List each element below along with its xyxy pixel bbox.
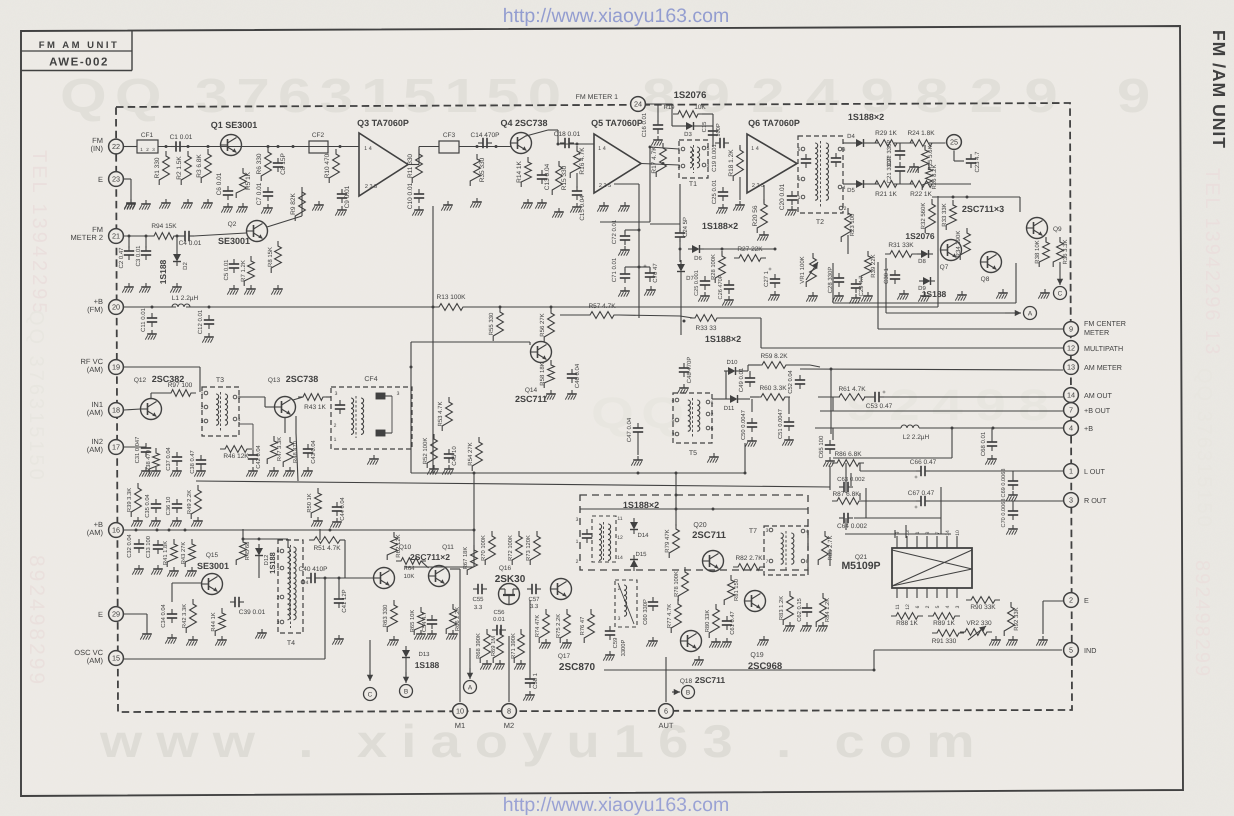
svg-text:Q2: Q2 — [228, 221, 237, 228]
transistor Q18 — [681, 631, 704, 666]
svg-text:1S188×2: 1S188×2 — [702, 221, 738, 231]
transformer T6 coils — [576, 516, 623, 565]
svg-text:1 4: 1 4 — [751, 146, 759, 152]
svg-text:(FM): (FM) — [87, 305, 103, 314]
resistor R90 — [966, 597, 1000, 611]
svg-text:+: + — [882, 390, 886, 396]
capacitor C66 — [910, 459, 937, 481]
svg-text:7: 7 — [1069, 406, 1073, 415]
svg-text:C44 0.04: C44 0.04 — [339, 496, 346, 520]
resistor R43 — [293, 394, 331, 481]
svg-text:C43 0.04: C43 0.04 — [310, 439, 317, 463]
svg-text:6: 6 — [664, 707, 668, 716]
svg-text:21: 21 — [112, 232, 120, 241]
capacitor C18 — [554, 131, 581, 148]
resistor R72 — [507, 531, 522, 565]
resistor R92 — [1004, 602, 1020, 636]
svg-text:C5 0.01: C5 0.01 — [223, 259, 230, 281]
svg-text:4: 4 — [306, 580, 309, 586]
resistor R35 — [470, 154, 486, 208]
svg-text:(AM): (AM) — [87, 445, 104, 454]
diode D4 — [847, 133, 868, 147]
svg-text:R5 1K: R5 1K — [245, 171, 252, 190]
svg-text:1: 1 — [798, 195, 801, 201]
svg-text:C65 100: C65 100 — [818, 435, 825, 458]
svg-text:10: 10 — [955, 530, 961, 536]
resistor R45 — [236, 529, 288, 565]
label 1S188x2 top — [702, 221, 738, 231]
resistor R63 — [382, 600, 399, 646]
svg-text:VR2 330: VR2 330 — [966, 620, 992, 627]
inductor L1 — [172, 295, 199, 307]
svg-text:C66 0.47: C66 0.47 — [910, 459, 937, 466]
diode D6 — [688, 245, 777, 262]
resistor R68 — [475, 629, 492, 670]
capacitor C43 — [303, 439, 317, 463]
wire conn5 IND — [874, 649, 1062, 651]
svg-text:C64 0.002: C64 0.002 — [837, 523, 867, 530]
resistor R18 — [728, 145, 745, 211]
svg-text:QQ 376315150: QQ 376315150 — [25, 310, 47, 483]
op-amp Q3 TA7060P — [357, 118, 409, 196]
connector 19 — [81, 357, 124, 374]
watermark mid digits b — [846, 381, 1061, 430]
svg-text:D3: D3 — [684, 131, 692, 138]
wire out links — [830, 463, 860, 530]
svg-text:C23 4.7: C23 4.7 — [974, 151, 981, 173]
resistor R17 — [600, 143, 666, 222]
svg-text:T2: T2 — [816, 219, 824, 226]
watermark right vertical pink2 — [1191, 560, 1213, 678]
IC M5109P — [841, 534, 972, 588]
svg-text:R44 1K: R44 1K — [211, 612, 217, 631]
resistor R49 — [186, 485, 203, 527]
svg-text:MULTIPATH: MULTIPATH — [1084, 344, 1123, 353]
svg-text:3: 3 — [955, 605, 961, 608]
svg-text:C69 0.0068: C69 0.0068 — [1001, 469, 1007, 498]
svg-text:http://www.xiaoyu163.com: http://www.xiaoyu163.com — [503, 794, 730, 816]
wire det vert — [675, 473, 852, 526]
svg-text:1 4: 1 4 — [364, 146, 372, 152]
resistor R65 — [409, 607, 426, 640]
svg-text:1: 1 — [915, 531, 921, 534]
capacitor C4 — [179, 231, 202, 247]
resistor R26 — [922, 164, 938, 190]
connector 2 — [1064, 593, 1089, 608]
svg-text:R49 2.2K: R49 2.2K — [186, 490, 193, 514]
svg-text:5: 5 — [707, 146, 710, 152]
svg-text:C: C — [368, 691, 373, 698]
capacitor C13 — [535, 163, 551, 208]
capacitor C1 — [170, 134, 193, 152]
svg-text:E: E — [98, 175, 103, 184]
resistor R66 — [446, 604, 461, 640]
capacitor C27 — [763, 267, 780, 301]
svg-text:1S188×2: 1S188×2 — [848, 112, 884, 122]
resistor R31 — [885, 242, 917, 257]
svg-text:4: 4 — [238, 417, 241, 423]
svg-text:R43 1K: R43 1K — [304, 404, 326, 411]
svg-text:Q14: Q14 — [525, 387, 538, 394]
svg-text:R69 1M: R69 1M — [490, 636, 497, 656]
svg-text:R27 22K: R27 22K — [737, 246, 763, 253]
svg-text:Q20: Q20 — [693, 522, 706, 529]
svg-text:+B OUT: +B OUT — [1084, 406, 1111, 415]
svg-text:R35 330: R35 330 — [479, 157, 486, 182]
wire conn29 — [124, 614, 152, 640]
svg-text:6: 6 — [798, 147, 801, 153]
svg-text:CF2: CF2 — [312, 132, 325, 139]
transistor Q8 — [981, 252, 1002, 284]
svg-text:FM CENTER: FM CENTER — [1084, 319, 1126, 328]
transistor Q4 — [500, 118, 547, 154]
svg-text:R52 100K: R52 100K — [422, 438, 429, 465]
svg-text:3: 3 — [397, 391, 400, 397]
wire M2 up — [508, 636, 510, 702]
connector 29 — [98, 607, 123, 622]
svg-text:R38 10K: R38 10K — [1034, 240, 1041, 263]
svg-text:C7 0.01: C7 0.01 — [256, 182, 263, 205]
svg-text:TEL 13942296 13: TEL 13942296 13 — [1201, 168, 1223, 356]
svg-text:R73 120K: R73 120K — [525, 535, 532, 561]
resistor R47 — [267, 436, 283, 464]
capacitor C49 — [738, 367, 755, 392]
svg-text:Q8: Q8 — [981, 276, 990, 283]
diode D13 — [402, 646, 440, 670]
svg-text:C39 0.01: C39 0.01 — [239, 609, 266, 616]
grounds top row — [124, 200, 151, 210]
diode D8 — [917, 250, 933, 265]
connector 18 — [87, 400, 124, 417]
svg-text:C3 0.01: C3 0.01 — [135, 245, 142, 267]
svg-text:18: 18 — [112, 406, 120, 415]
svg-text:2: 2 — [711, 412, 714, 418]
svg-text:TEL 13942295: TEL 13942295 — [28, 150, 50, 316]
connector 10 M1 — [453, 704, 468, 730]
svg-text:C24 5P: C24 5P — [682, 217, 689, 237]
resistor R1 — [154, 151, 171, 209]
svg-text:+: + — [914, 505, 918, 511]
diode D10 — [724, 359, 740, 375]
svg-text:+: + — [914, 475, 918, 481]
svg-text:6: 6 — [806, 559, 809, 565]
connector 23 — [98, 172, 123, 187]
svg-text:C48 470P: C48 470P — [686, 357, 693, 384]
svg-text:R48 470: R48 470 — [292, 441, 299, 463]
svg-text:100P: 100P — [715, 123, 722, 137]
resistor R69 — [490, 629, 505, 670]
svg-text:C58 1: C58 1 — [532, 672, 539, 689]
svg-text:A: A — [1028, 310, 1033, 317]
svg-text:C46 0.04: C46 0.04 — [574, 363, 581, 388]
svg-text:R24 1.8K: R24 1.8K — [907, 130, 935, 137]
svg-text:R28 100K: R28 100K — [710, 254, 717, 280]
svg-text:http://www.xiaoyu163.com: http://www.xiaoyu163.com — [503, 5, 730, 27]
svg-text:Q6 TA7060P: Q6 TA7060P — [748, 118, 800, 128]
svg-text:R78 100K: R78 100K — [673, 571, 680, 597]
label 1S188x2 det — [623, 500, 659, 510]
svg-text:2: 2 — [334, 423, 337, 429]
svg-text:C6 0.01: C6 0.01 — [216, 172, 223, 195]
capacitor C21 — [886, 143, 905, 184]
svg-text:E: E — [1084, 596, 1089, 605]
svg-text:4: 4 — [945, 605, 951, 608]
svg-text:B: B — [686, 689, 690, 696]
svg-text:C18 0.01: C18 0.01 — [554, 131, 581, 138]
svg-text:R67 18K: R67 18K — [462, 547, 469, 570]
wire AM OUT — [818, 390, 1063, 397]
svg-text:4: 4 — [672, 398, 675, 404]
capacitor C61 — [720, 611, 736, 647]
svg-text:14: 14 — [617, 555, 623, 561]
watermark big digits row 1b — [642, 70, 1171, 123]
svg-text:CF4: CF4 — [364, 376, 377, 383]
capacitor C6 — [216, 172, 233, 212]
svg-text:C: C — [1058, 290, 1063, 297]
svg-text:3: 3 — [277, 620, 280, 626]
capacitor C51 — [777, 409, 794, 446]
resistor R23 — [841, 208, 856, 254]
svg-text:C13 0.04: C13 0.04 — [544, 163, 551, 190]
svg-text:VR1 100K: VR1 100K — [799, 256, 806, 283]
resistor R71 — [510, 629, 526, 670]
capacitor C8 — [273, 153, 287, 175]
svg-text:SE3001: SE3001 — [218, 236, 250, 246]
svg-text:R51 4.7K: R51 4.7K — [313, 545, 341, 552]
svg-text:2 3 5: 2 3 5 — [599, 183, 611, 189]
capacitor C16 — [641, 112, 663, 145]
svg-text:L2 2.2µH: L2 2.2µH — [903, 434, 930, 441]
svg-text:T3: T3 — [216, 377, 224, 384]
svg-text:R3 6.8K: R3 6.8K — [196, 154, 203, 178]
wire to conn13 — [787, 368, 1063, 435]
svg-text:R7 1.2K: R7 1.2K — [240, 260, 247, 282]
svg-text:C67 0.47: C67 0.47 — [908, 490, 935, 497]
resistor R77 — [667, 599, 681, 633]
svg-text:FM METER 1: FM METER 1 — [576, 94, 618, 101]
svg-text:(AM): (AM) — [87, 365, 104, 374]
svg-text:1S188×2: 1S188×2 — [623, 500, 659, 510]
filter CF1 — [137, 132, 158, 153]
transistor Q1 — [211, 120, 258, 156]
capacitor C42 — [248, 444, 262, 468]
svg-text:C8 15P: C8 15P — [280, 153, 287, 175]
svg-text:C70 0.0068: C70 0.0068 — [1001, 499, 1007, 528]
svg-text:C68 0.01: C68 0.01 — [980, 431, 987, 456]
svg-text:R45 68: R45 68 — [244, 542, 251, 561]
svg-text:C63 0.002: C63 0.002 — [837, 476, 865, 483]
svg-text:C19 0.001: C19 0.001 — [711, 144, 718, 172]
watermark bottom url — [503, 794, 730, 816]
svg-text:12: 12 — [1067, 344, 1075, 353]
svg-text:R42 3.3K: R42 3.3K — [181, 604, 188, 628]
grounds IC — [989, 636, 1048, 646]
diode D2 — [158, 235, 189, 293]
svg-text:9: 9 — [895, 531, 901, 534]
svg-text:5: 5 — [1069, 646, 1073, 655]
resistor R91 — [932, 630, 964, 645]
svg-text:2SC711: 2SC711 — [515, 394, 547, 404]
wire conn2 — [1043, 601, 1063, 634]
svg-text:1S188: 1S188 — [415, 660, 440, 670]
resistor R7 — [240, 256, 256, 295]
wire mid h1 — [411, 443, 745, 475]
resistor R9 — [290, 187, 305, 221]
svg-text:C71 0.01: C71 0.01 — [611, 257, 618, 282]
svg-text:R58 18K: R58 18K — [539, 362, 546, 385]
wire Q3 out — [408, 147, 439, 165]
svg-text:2: 2 — [925, 605, 931, 608]
svg-text:Q13: Q13 — [268, 377, 281, 384]
capacitor C22 — [886, 140, 905, 167]
wire Q2 out — [267, 192, 302, 227]
svg-text:14: 14 — [945, 530, 951, 536]
svg-text:3: 3 — [618, 616, 621, 622]
wire mid v2 — [410, 342, 412, 473]
svg-text:C4 0.01: C4 0.01 — [179, 240, 202, 247]
label 1S188x2 right — [848, 112, 884, 122]
resistor R42 — [181, 599, 198, 646]
svg-text:M5109P: M5109P — [841, 560, 880, 572]
capacitor C15b — [570, 173, 586, 221]
svg-text:6: 6 — [238, 395, 241, 401]
svg-text:R74 47K: R74 47K — [535, 615, 541, 638]
resistor R51 — [309, 529, 345, 578]
svg-text:R36 3.3K: R36 3.3K — [1062, 239, 1069, 264]
svg-text:AM METER: AM METER — [1084, 363, 1122, 372]
svg-text:1: 1 — [576, 539, 579, 545]
resistor R16 — [552, 161, 568, 218]
capacitor C7 — [256, 182, 273, 213]
wire meter2 — [124, 233, 246, 236]
svg-text:R39 3.3K: R39 3.3K — [126, 488, 133, 512]
svg-text:9: 9 — [1069, 325, 1073, 334]
svg-text:C47 0.04: C47 0.04 — [626, 417, 633, 442]
resistor R67 — [462, 545, 477, 575]
svg-text:Q19: Q19 — [750, 652, 763, 659]
svg-text:D8: D8 — [918, 258, 926, 265]
svg-text:C12 0.01: C12 0.01 — [197, 309, 204, 334]
ref B bottom — [400, 662, 413, 698]
svg-text:1S2076: 1S2076 — [905, 231, 935, 241]
transistor Q12 — [124, 374, 184, 420]
svg-text:R91 330: R91 330 — [932, 638, 957, 645]
svg-text:QQ 376315150: QQ 376315150 — [1193, 368, 1215, 529]
svg-text:R89 1K: R89 1K — [933, 620, 955, 627]
svg-text:Q17: Q17 — [558, 653, 571, 660]
ground under Q5 — [597, 202, 630, 212]
capacitor C71 — [611, 257, 639, 296]
capacitor C3 — [135, 235, 151, 293]
svg-text:R88 1K: R88 1K — [896, 620, 918, 627]
svg-text:M2: M2 — [504, 721, 514, 730]
connector 7 — [1064, 403, 1111, 418]
svg-text:www . xiaoyu163 . com: www . xiaoyu163 . com — [99, 715, 989, 767]
resistor R75 — [555, 609, 572, 649]
svg-text:892498299: 892498299 — [1191, 560, 1213, 678]
svg-text:C28 330P: C28 330P — [827, 267, 834, 294]
variable resistor VR1 — [799, 253, 818, 287]
svg-text:0.01: 0.01 — [493, 616, 505, 623]
svg-text:R90 33K: R90 33K — [970, 604, 996, 611]
diode D9 — [918, 277, 935, 292]
wire +B AM rail — [124, 529, 474, 532]
transistor Q10 — [374, 544, 412, 589]
svg-text:R43 27K: R43 27K — [180, 542, 187, 565]
title box — [21, 31, 132, 71]
svg-text:Q9: Q9 — [1053, 226, 1062, 233]
capacitor C67 — [908, 490, 935, 511]
resistor R97 — [166, 382, 196, 396]
resistor R83 — [778, 591, 795, 632]
svg-text:C55: C55 — [472, 596, 484, 603]
svg-text:2SC870: 2SC870 — [559, 662, 596, 673]
transistor Q14 — [515, 342, 552, 405]
diode D7 — [677, 260, 694, 335]
svg-text:C40 410P: C40 410P — [299, 566, 328, 573]
resistor R33c — [680, 315, 761, 348]
filter CF3 — [439, 132, 459, 211]
svg-text:R70 100K: R70 100K — [480, 535, 487, 561]
wire M1 up — [450, 569, 460, 702]
svg-text:C70 47: C70 47 — [652, 263, 659, 283]
main dashed boundary — [116, 103, 1072, 712]
svg-text:D5: D5 — [847, 187, 855, 194]
svg-text:Q1 SE3001: Q1 SE3001 — [211, 120, 258, 130]
capacitor C60 — [642, 597, 658, 647]
transformer T5 — [672, 393, 714, 457]
capacitor C15 — [701, 122, 722, 140]
capacitor C19 — [711, 138, 729, 172]
svg-text:R54 27K: R54 27K — [467, 442, 474, 465]
svg-text:23: 23 — [112, 175, 120, 184]
capacitor C31 — [124, 424, 253, 463]
wire mid h342 — [411, 342, 530, 345]
svg-text:C52 0.04: C52 0.04 — [787, 369, 794, 393]
svg-text:C56: C56 — [493, 609, 505, 616]
filter CF4 — [331, 376, 412, 465]
connector 16 — [87, 520, 124, 537]
svg-text:(IN): (IN) — [91, 144, 104, 153]
wire meter1 — [646, 104, 713, 147]
svg-text:R68 390K: R68 390K — [475, 633, 482, 659]
svg-text:(AM): (AM) — [87, 408, 104, 417]
svg-text:4: 4 — [806, 529, 809, 535]
svg-text:8: 8 — [507, 707, 511, 716]
svg-text:R47 3.3K: R47 3.3K — [276, 437, 283, 461]
svg-text:C15: C15 — [701, 122, 708, 133]
capacitor C70b — [639, 263, 659, 296]
svg-text:SE3001: SE3001 — [197, 561, 229, 571]
svg-text:12: 12 — [905, 604, 911, 610]
svg-text:R60 3.3K: R60 3.3K — [759, 385, 787, 392]
capacitor C38 — [189, 450, 206, 474]
resistor R27 — [734, 246, 766, 261]
variable resistor VR2 — [960, 620, 992, 640]
connector 20 — [87, 297, 123, 314]
svg-text:C1 0.01: C1 0.01 — [170, 134, 193, 141]
capacitor C9 — [335, 185, 351, 215]
transformer T3 — [201, 377, 241, 436]
svg-text:2SC738: 2SC738 — [286, 374, 319, 384]
svg-text:R80 33K: R80 33K — [704, 610, 711, 633]
svg-text:R59 8.2K: R59 8.2K — [760, 353, 788, 360]
svg-text:METER: METER — [1084, 328, 1109, 337]
svg-text:R23 100: R23 100 — [849, 213, 856, 236]
svg-text:R72 100K: R72 100K — [507, 535, 514, 561]
svg-text:R71 390K: R71 390K — [510, 633, 517, 659]
title text FM AM UNIT — [39, 40, 120, 51]
